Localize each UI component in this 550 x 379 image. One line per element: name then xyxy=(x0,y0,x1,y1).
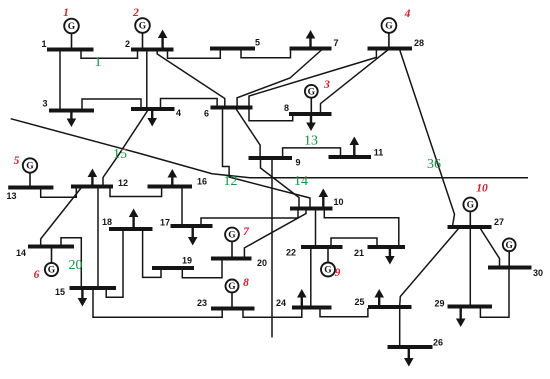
svg-text:12: 12 xyxy=(118,178,128,188)
svg-text:24: 24 xyxy=(276,298,286,308)
svg-text:4: 4 xyxy=(404,8,411,20)
svg-text:G: G xyxy=(385,22,393,32)
svg-text:14: 14 xyxy=(16,248,26,258)
svg-text:23: 23 xyxy=(197,298,207,308)
svg-text:G: G xyxy=(506,241,514,251)
svg-text:20: 20 xyxy=(69,258,83,273)
svg-text:1: 1 xyxy=(95,55,102,70)
svg-text:6: 6 xyxy=(204,109,209,119)
svg-text:1: 1 xyxy=(41,39,46,49)
svg-text:15: 15 xyxy=(55,287,65,297)
svg-text:1: 1 xyxy=(63,7,69,19)
svg-text:17: 17 xyxy=(160,218,170,228)
svg-text:13: 13 xyxy=(304,134,318,149)
svg-text:8: 8 xyxy=(284,103,289,113)
svg-text:G: G xyxy=(324,266,332,276)
svg-text:5: 5 xyxy=(255,38,260,48)
svg-text:18: 18 xyxy=(102,217,112,227)
svg-text:4: 4 xyxy=(176,108,181,118)
svg-text:14: 14 xyxy=(294,174,308,189)
svg-text:9: 9 xyxy=(335,267,341,279)
svg-text:5: 5 xyxy=(14,155,20,167)
svg-text:10: 10 xyxy=(476,183,488,195)
svg-text:G: G xyxy=(308,88,316,98)
svg-text:2: 2 xyxy=(132,7,139,19)
svg-text:15: 15 xyxy=(113,147,127,162)
svg-text:19: 19 xyxy=(182,256,192,266)
svg-text:6: 6 xyxy=(34,269,40,281)
svg-text:7: 7 xyxy=(333,38,338,48)
svg-text:3: 3 xyxy=(323,79,330,91)
svg-text:11: 11 xyxy=(374,148,384,158)
svg-text:8: 8 xyxy=(243,277,249,289)
svg-text:G: G xyxy=(228,231,236,241)
svg-text:3: 3 xyxy=(42,99,47,109)
svg-text:22: 22 xyxy=(286,248,296,258)
svg-text:9: 9 xyxy=(295,158,300,168)
svg-text:G: G xyxy=(48,266,56,276)
svg-text:21: 21 xyxy=(354,248,364,258)
svg-text:G: G xyxy=(26,162,34,172)
svg-text:16: 16 xyxy=(197,177,207,187)
svg-text:30: 30 xyxy=(533,268,543,278)
svg-text:27: 27 xyxy=(494,217,504,227)
svg-text:2: 2 xyxy=(125,39,130,49)
svg-text:25: 25 xyxy=(354,297,364,307)
svg-text:G: G xyxy=(68,22,76,32)
svg-text:26: 26 xyxy=(433,338,443,348)
svg-text:G: G xyxy=(467,201,475,211)
svg-text:36: 36 xyxy=(427,157,441,172)
svg-text:29: 29 xyxy=(434,299,444,309)
svg-text:28: 28 xyxy=(414,38,424,48)
svg-text:10: 10 xyxy=(333,197,343,207)
svg-text:G: G xyxy=(228,282,236,292)
svg-text:20: 20 xyxy=(257,258,267,268)
svg-text:13: 13 xyxy=(6,191,16,201)
svg-text:G: G xyxy=(139,22,147,32)
svg-text:12: 12 xyxy=(224,174,238,189)
